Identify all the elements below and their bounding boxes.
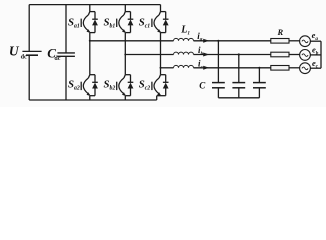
svg-text:L1: L1 (180, 25, 190, 37)
svg-text:C: C (199, 80, 206, 90)
svg-text:Sb1: Sb1 (104, 17, 116, 30)
svg-text:dc: dc (21, 54, 27, 61)
svg-text:Sa1: Sa1 (68, 17, 80, 30)
svg-text:ib: ib (198, 45, 204, 57)
svg-text:ea: ea (312, 30, 319, 42)
svg-text:Sc2: Sc2 (139, 78, 151, 91)
svg-text:U: U (9, 44, 20, 59)
svg-text:ic: ic (198, 59, 204, 71)
svg-text:Sa2: Sa2 (68, 78, 80, 91)
svg-text:R: R (277, 27, 284, 37)
svg-text:Sc1: Sc1 (139, 17, 151, 30)
svg-text:dc: dc (54, 56, 60, 62)
svg-text:Sb2: Sb2 (104, 78, 116, 91)
